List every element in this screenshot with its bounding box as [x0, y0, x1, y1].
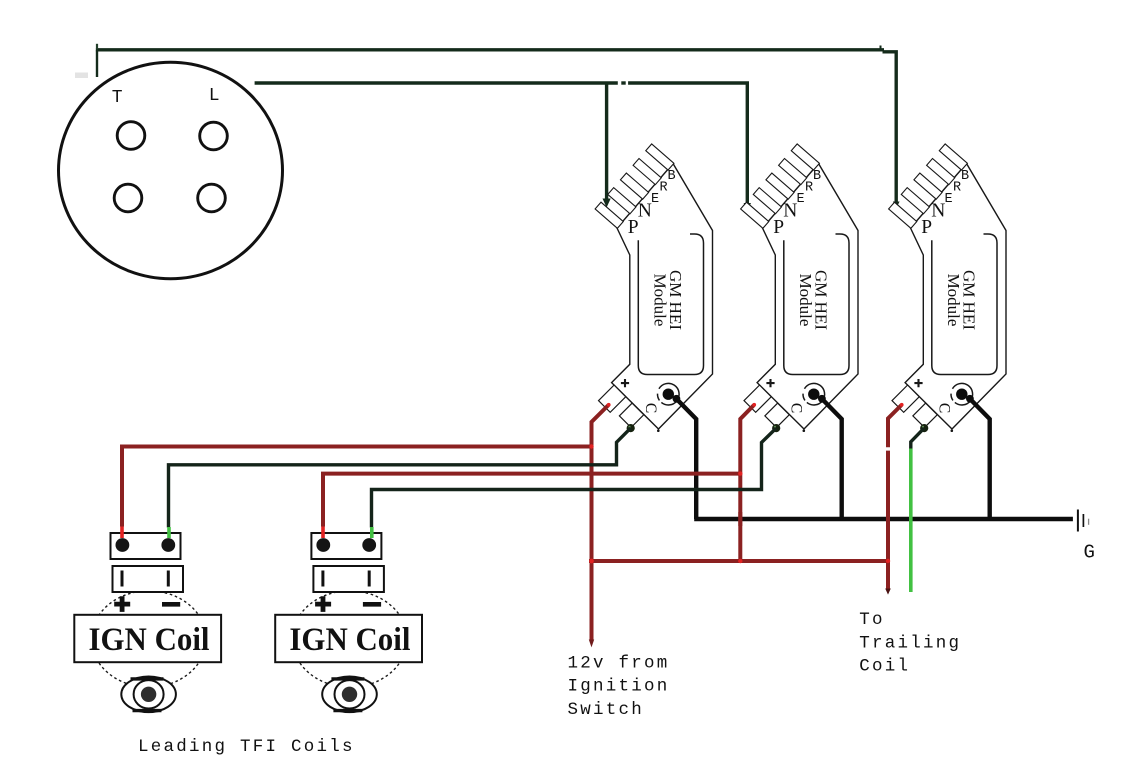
svg-text:Switch: Switch — [568, 700, 645, 720]
svg-text:12v from: 12v from — [568, 653, 670, 673]
svg-text:To: To — [859, 610, 885, 630]
svg-text:G: G — [1084, 542, 1095, 564]
svg-text:Leading TFI Coils: Leading TFI Coils — [138, 737, 355, 757]
svg-text:L: L — [209, 86, 220, 106]
svg-text:Ignition: Ignition — [568, 677, 670, 697]
svg-text:T: T — [112, 88, 123, 108]
svg-text:Coil: Coil — [859, 657, 910, 677]
svg-text:Trailing: Trailing — [859, 633, 961, 653]
